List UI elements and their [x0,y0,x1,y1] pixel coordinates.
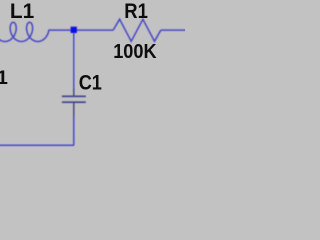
svg-text:1: 1 [0,67,8,89]
wire inductor to junction [50,29,71,31]
svg-text:C1: C1 [79,72,102,95]
resistor R1 [113,19,161,41]
svg-text:L1: L1 [10,0,35,23]
junction node [71,27,77,33]
wire junction to resistor [77,29,114,31]
inductor L1 [0,22,50,41]
wire junction down to capacitor [73,33,75,89]
svg-text:100K: 100K [113,40,157,63]
wire capacitor to bottom-left edge [0,117,74,145]
svg-text:R1: R1 [124,0,148,23]
capacitor C1 [62,89,86,119]
wire resistor to right edge [161,29,186,31]
